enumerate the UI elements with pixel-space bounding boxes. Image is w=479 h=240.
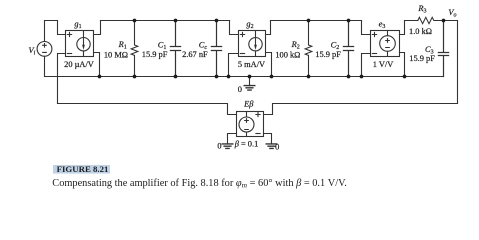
capacitor Cc (211, 21, 221, 77)
ground symbol right of Eβ (266, 144, 277, 149)
dependent source E3 box (371, 31, 400, 57)
svg-text:2.67 nF: 2.67 nF (182, 50, 208, 59)
svg-text:Compensating the amplifier of: Compensating the amplifier of Fig. 8.18 … (52, 178, 347, 190)
svg-text:0: 0 (275, 142, 279, 151)
wire g2 output bottom to ground rail (266, 53, 272, 77)
svg-text:1 V/V: 1 V/V (373, 60, 394, 69)
dependent source G2 box (239, 31, 266, 57)
svg-text:15.9 pF: 15.9 pF (315, 50, 341, 59)
wire g1 output bottom to ground rail (94, 53, 100, 77)
polarity - e3 input (372, 53, 376, 55)
wire Vi bottom to ground rail (44, 56, 46, 76)
capacitor C1 (170, 21, 180, 77)
wire g1 output top to node 1 rail (94, 21, 101, 35)
svg-text:Eβ: Eβ (243, 99, 254, 108)
capacitor C2 (343, 21, 353, 77)
junction C1 top (174, 19, 178, 23)
wire e3 input - to ground rail (362, 54, 371, 77)
svg-text:R3: R3 (417, 4, 426, 15)
svg-text:Vi: Vi (29, 46, 36, 57)
resistor R1 (131, 21, 138, 77)
wire e3 output top to R3 (400, 21, 418, 35)
ground rail bottom (45, 76, 444, 78)
junction C1 bottom (174, 75, 178, 79)
svg-text:e3: e3 (379, 20, 386, 31)
polarity - g1 input (67, 53, 71, 55)
polarity - Eβ sense (256, 133, 260, 135)
dependent source G1 box (66, 31, 94, 57)
svg-text:0: 0 (217, 141, 221, 150)
polarity - g2 input (240, 53, 244, 55)
node 1 top rail (101, 20, 230, 22)
polarity + g1 input (67, 32, 71, 36)
junction R2 bottom (307, 75, 311, 79)
wire g2 input - to ground rail (229, 54, 239, 77)
svg-text:β = 0.1: β = 0.1 (234, 139, 259, 148)
junction g2 output bottom (270, 75, 274, 79)
junction e3 input - bottom (360, 75, 364, 79)
capacitor C3 (438, 21, 448, 77)
resistor R3 (418, 17, 444, 23)
svg-text:20 µA/V: 20 µA/V (64, 60, 94, 69)
svg-text:FIGURE 8.21: FIGURE 8.21 (57, 164, 109, 174)
polarity + g2 input (240, 32, 244, 36)
node 2 top rail (271, 20, 362, 22)
junction C2 bottom (347, 75, 351, 79)
wire g1 input - down to feedback net (58, 54, 66, 104)
svg-text:5 mA/V: 5 mA/V (238, 60, 265, 69)
svg-text:15.9 pF: 15.9 pF (409, 54, 435, 63)
svg-text:15.9 pF: 15.9 pF (142, 50, 168, 59)
junction g2 input - bottom (227, 75, 231, 79)
wire node1 rail down to g2 input + (230, 21, 239, 35)
junction R2 top (307, 19, 311, 23)
dependent source Eβ box (237, 112, 264, 137)
svg-text:10 MΩ: 10 MΩ (104, 50, 128, 59)
junction Cc bottom (215, 75, 219, 79)
wire e3 output bottom to ground rail (400, 53, 405, 77)
wire Eβ output - to left ground (228, 134, 237, 144)
wire ground stub mid rail (249, 77, 251, 86)
wire node2 rail down to e3 input + (362, 21, 371, 35)
feedback wire right segment to Eβ sense + (264, 104, 458, 115)
wire Eβ sense - to right ground (264, 134, 272, 144)
junction Cc top (215, 19, 219, 23)
resistor R2 (305, 21, 312, 77)
ground symbol left of Eβ (222, 144, 233, 149)
svg-text:0: 0 (238, 85, 242, 94)
node Vo junction (442, 19, 446, 23)
junction R1 top (133, 19, 137, 23)
svg-text:Vo: Vo (448, 8, 456, 19)
junction g1 output bottom (98, 75, 102, 79)
wire g2 output top to node 2 rail (266, 21, 271, 35)
svg-text:R2: R2 (291, 40, 300, 51)
polarity + Eβ sense (256, 112, 260, 116)
svg-text:100 kΩ: 100 kΩ (275, 50, 300, 59)
svg-text:g1: g1 (74, 20, 81, 31)
feedback wire left segment (58, 104, 237, 115)
junction R1 bottom (133, 75, 137, 79)
wire node Vo to feedback right vertical (444, 21, 458, 104)
junction C2 top (347, 19, 351, 23)
wire Vi top to g1 input + (45, 21, 66, 42)
caption heading FIGURE 8.21 (53, 164, 110, 174)
ground symbol mid rail (244, 86, 255, 91)
source Vi (37, 42, 52, 57)
svg-text:R1: R1 (118, 40, 127, 51)
svg-text:g2: g2 (246, 20, 253, 31)
svg-text:1.0 kΩ: 1.0 kΩ (409, 27, 432, 36)
junction e3 output bottom (403, 75, 407, 79)
polarity + e3 input (372, 32, 376, 36)
junction ground mid (248, 75, 252, 79)
